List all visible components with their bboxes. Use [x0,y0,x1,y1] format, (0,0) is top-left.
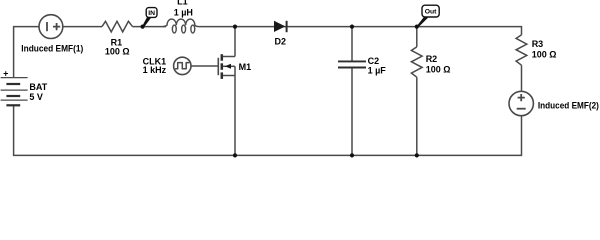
svg-text:L1: L1 [177,0,188,7]
svg-text:5 V: 5 V [29,92,43,102]
capacitor C2 plates [338,61,366,67]
node junction dot OUT [415,25,419,29]
clock source CLK1 [174,57,191,74]
node IN flag [142,8,157,28]
transistor M1 NMOS [218,54,235,79]
wire CLK1 to gate [191,65,218,67]
wire C2 bottom [351,68,353,155]
svg-text:R2: R2 [426,54,438,64]
node junction dot C2 bottom [350,153,354,157]
svg-text:1 kHz: 1 kHz [143,65,167,75]
svg-text:Out: Out [425,9,437,16]
wire R2 bottom stub [416,77,418,155]
resistor R2 [411,47,422,77]
node Out flag [416,5,439,28]
svg-text:M1: M1 [239,62,252,72]
voltage source Induced EMF(1) U1 circle [39,15,63,39]
wire top rail R1 to L1 [133,26,167,28]
svg-text:100 Ω: 100 Ω [532,50,557,60]
battery BAT plates [1,78,28,106]
svg-text:IN: IN [148,10,155,17]
svg-text:100 Ω: 100 Ω [105,47,130,57]
svg-text:BAT: BAT [29,82,47,92]
svg-text:Induced EMF(1): Induced EMF(1) [21,43,83,53]
diode D2 [274,21,287,32]
wire top rail EMF1 to R1 [64,26,103,28]
node junction dot IN [141,25,145,29]
svg-text:C2: C2 [368,56,380,66]
svg-text:100 Ω: 100 Ω [426,65,451,75]
resistor R1 [102,21,133,32]
wire MOSFET source vertical [234,66,236,155]
voltage source Induced EMF(2) circle [509,91,533,115]
svg-text:D2: D2 [275,36,287,46]
svg-text:1 µH: 1 µH [174,7,193,17]
wire C2 top [351,27,353,61]
svg-text:Induced EMF(2): Induced EMF(2) [538,100,599,110]
wire R2 top stub [416,27,418,47]
wire top rail left segment with battery top [14,27,40,78]
svg-text:1 µF: 1 µF [368,66,387,76]
svg-text:R3: R3 [532,39,544,49]
node junction dot R2 bottom [415,153,419,157]
resistor R3 [516,35,527,65]
wire right rail R3 to EMF2 [521,65,523,91]
wire bottom rail with battery bottom and EMF2 stub [14,105,522,155]
wire top rail L1 to right corner and R3 stub [199,27,522,35]
node junction dot drain top [233,25,237,29]
svg-text:+: + [3,69,8,79]
inductor L1 [163,19,199,33]
wire MOSFET drain vertical [234,27,236,57]
node junction dot C2 top [350,25,354,29]
node junction dot source bottom [233,153,237,157]
